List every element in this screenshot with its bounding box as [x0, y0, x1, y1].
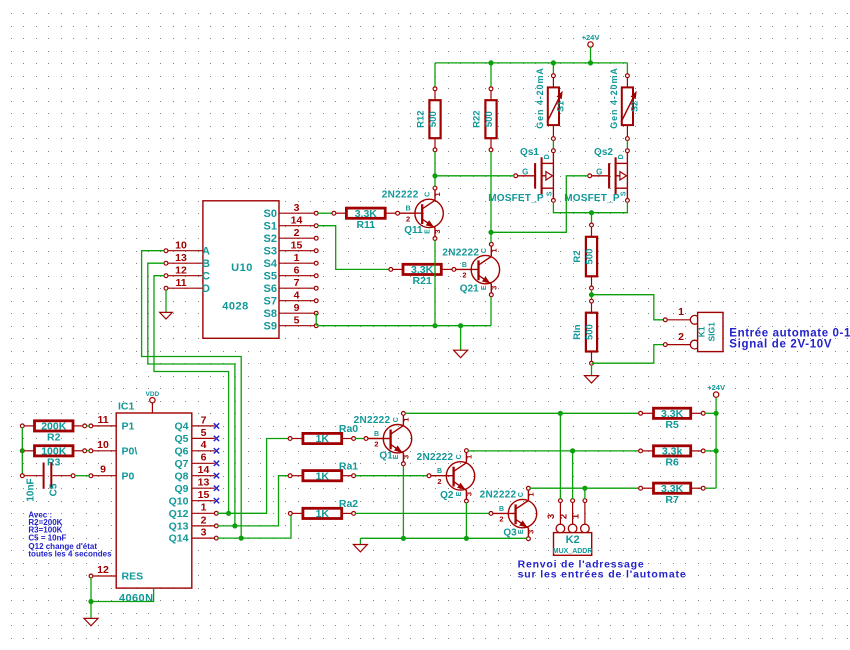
U10 pin A (pin 10)	[164, 240, 210, 258]
IC1 pin RES (pin 12)	[89, 564, 143, 583]
svg-text:Gen 4-20mA: Gen 4-20mA	[535, 67, 545, 129]
svg-text:2: 2	[374, 440, 378, 449]
junction source bus / R2	[589, 210, 594, 215]
wire bus to ground	[460, 326, 462, 351]
U10 pin S4 (pin 1)	[264, 252, 319, 270]
svg-text:P0\: P0\	[122, 445, 138, 457]
wire R7 right stub	[705, 487, 716, 489]
svg-text:4028: 4028	[222, 301, 248, 313]
wire R12 to Q11 collector	[434, 152, 436, 187]
power +24V (right)	[707, 383, 725, 397]
wire Q13 to Ra1	[218, 476, 288, 526]
IC IC1 4060N body	[116, 401, 192, 589]
svg-text:R2: R2	[572, 250, 583, 262]
svg-text:U10: U10	[231, 262, 253, 274]
wire bus to Q21 emitter	[490, 297, 492, 326]
current source S1 Gen 4-20mA	[535, 67, 566, 140]
capacitor C5 10nF	[20, 463, 75, 502]
transistor Q2	[417, 449, 475, 503]
svg-text:B: B	[499, 506, 504, 513]
wire Q11 emitter drop	[434, 241, 436, 326]
svg-text:10: 10	[175, 240, 187, 252]
svg-text:Ra1: Ra1	[339, 460, 358, 472]
resistor Ra0 1K	[288, 433, 355, 445]
wire to Qs2 gate	[491, 176, 588, 233]
svg-text:B: B	[462, 262, 467, 269]
svg-text:C: C	[425, 192, 432, 197]
wire K2 pin2 up	[572, 451, 574, 499]
resistor R11 3.3K	[332, 208, 396, 231]
svg-text:R22: R22	[472, 110, 483, 127]
svg-text:3: 3	[465, 492, 474, 496]
IC1 pin Q9 (pin 13)	[174, 477, 219, 495]
transistor Q11	[382, 186, 444, 240]
wire Q1 collector net	[405, 412, 639, 414]
resistor R6 3.3k	[639, 446, 705, 469]
transistor Q21	[442, 242, 499, 296]
svg-text:Q1: Q1	[379, 451, 393, 462]
junction left rail R3	[20, 449, 24, 453]
wire Q14 to Ra2	[218, 513, 291, 538]
svg-text:Q7: Q7	[174, 458, 188, 470]
transistor Q1	[354, 412, 412, 466]
junction bus/Q2	[464, 536, 469, 541]
svg-text:E: E	[481, 285, 488, 290]
U10 pin S8 (pin 9)	[264, 302, 319, 320]
svg-text:3: 3	[527, 530, 536, 534]
svg-text:R5: R5	[665, 419, 679, 431]
svg-text:S: S	[620, 191, 627, 196]
svg-text:10: 10	[97, 439, 109, 451]
svg-text:VDD: VDD	[146, 391, 160, 398]
svg-text:S7: S7	[264, 295, 277, 307]
wire Q3 collector net	[530, 487, 639, 489]
junction Q14/net A	[239, 536, 244, 541]
svg-text:15: 15	[291, 240, 303, 252]
wire R22 to Q21 collector	[490, 152, 492, 243]
IC1 pin P1 (pin 11)	[89, 414, 135, 433]
svg-text:Q10: Q10	[169, 495, 189, 507]
svg-text:RES: RES	[122, 571, 144, 583]
junction S9 bus / Q11 emitter	[432, 323, 437, 328]
resistor RIn 500	[572, 299, 597, 365]
label Ra2	[339, 498, 358, 510]
ground under RIn	[585, 376, 599, 383]
svg-text:1K: 1K	[316, 470, 330, 482]
wire RIn to K1 pin 2	[592, 345, 664, 364]
IC1 pin Q6 (pin 4)	[174, 439, 219, 457]
svg-text:4060N: 4060N	[119, 592, 153, 604]
wire Q2 collector net	[468, 450, 639, 452]
wire R2 to RIn	[591, 290, 593, 300]
U10 pin S2 (pin 2)	[264, 227, 319, 245]
svg-text:MOSFET_P: MOSFET_P	[564, 193, 620, 204]
svg-text:Gen 4-20mA: Gen 4-20mA	[609, 67, 619, 129]
svg-text:1: 1	[678, 306, 684, 318]
svg-text:2: 2	[678, 331, 684, 343]
svg-text:S: S	[546, 191, 553, 196]
svg-text:Q2: Q2	[440, 490, 454, 501]
resistor Ra1 1K	[288, 470, 355, 482]
wire S2 to Qs2 drain	[626, 140, 628, 149]
power flag VDD	[146, 391, 160, 413]
svg-text:S2: S2	[630, 101, 640, 112]
wire Ra1 to Q2	[355, 475, 427, 477]
svg-text:12: 12	[175, 265, 187, 277]
svg-text:Q13: Q13	[169, 521, 189, 533]
svg-text:B: B	[202, 258, 210, 270]
svg-text:R3: R3	[47, 456, 61, 468]
svg-text:3: 3	[402, 455, 411, 459]
U10 pin S5 (pin 6)	[264, 265, 319, 283]
svg-text:2: 2	[462, 271, 466, 280]
svg-text:3: 3	[546, 514, 557, 519]
svg-text:500: 500	[584, 249, 595, 265]
label Ra0	[339, 423, 358, 435]
svg-text:2: 2	[201, 514, 207, 526]
resistor R5 3.3K	[639, 408, 705, 431]
junction S9 bus / ground	[458, 323, 463, 328]
junction R12/Qs1 gate	[432, 173, 437, 178]
IC1 pin Q13 (pin 2)	[169, 514, 219, 532]
svg-text:S0: S0	[264, 208, 277, 220]
svg-text:3: 3	[433, 230, 442, 234]
svg-text:1: 1	[527, 493, 536, 497]
wire IC1 bottom to ground	[91, 588, 154, 601]
svg-text:4: 4	[201, 439, 207, 451]
svg-text:1: 1	[294, 252, 300, 264]
junction Q12/net B	[226, 511, 231, 516]
svg-text:1: 1	[433, 192, 442, 196]
svg-text:Q9: Q9	[174, 483, 188, 495]
svg-text:C: C	[202, 270, 210, 282]
svg-text:RIn: RIn	[572, 324, 583, 340]
IC1 pin Q14 (pin 3)	[169, 527, 219, 545]
IC1 pin Q5 (pin 5)	[174, 427, 219, 445]
ground under transistor bus	[353, 545, 367, 552]
svg-text:S2: S2	[264, 233, 277, 245]
wire emitter ground bus	[360, 537, 526, 539]
svg-text:S8: S8	[264, 308, 277, 320]
junction rail/R5	[714, 411, 719, 416]
svg-text:Q8: Q8	[174, 470, 188, 482]
wire RES down	[90, 578, 92, 602]
wire mosfet source bus	[553, 202, 627, 213]
svg-text:2N2222: 2N2222	[417, 452, 454, 463]
svg-text:B: B	[406, 206, 411, 213]
svg-text:14: 14	[291, 215, 303, 227]
svg-text:1K: 1K	[316, 508, 330, 520]
IC1 pin Q10 (pin 15)	[169, 489, 220, 507]
svg-text:MOSFET_P: MOSFET_P	[488, 193, 544, 204]
svg-text:G: G	[522, 168, 528, 177]
wire to Qs1 gate	[435, 175, 514, 177]
wire bus to R22	[490, 63, 492, 87]
svg-text:R21: R21	[413, 275, 432, 287]
junction Q2 net / K2 pin2	[570, 448, 575, 453]
wire Q2 emitter drop	[465, 503, 467, 539]
svg-text:15: 15	[198, 489, 210, 501]
wire Ra0 to Q1	[355, 438, 364, 440]
resistor R3 100K	[20, 445, 86, 468]
svg-text:3: 3	[490, 286, 499, 290]
wire net A (U10.A to IC1.Q14)	[142, 251, 242, 538]
wire C5 to P0	[75, 475, 89, 477]
resistor Ra2 1K	[288, 508, 355, 520]
wire bus to S2	[626, 63, 628, 74]
U10 pin S9 (pin 5)	[264, 315, 319, 333]
svg-text:2N2222: 2N2222	[480, 490, 517, 501]
svg-text:9: 9	[100, 464, 106, 476]
svg-text:Q5: Q5	[174, 433, 188, 445]
svg-text:Q21: Q21	[460, 284, 479, 295]
ground under U10.D	[160, 312, 173, 319]
svg-text:E: E	[518, 529, 525, 534]
svg-text:1: 1	[201, 502, 207, 514]
wire net C (U10.C to IC1.Q12)	[154, 276, 229, 514]
svg-text:A: A	[202, 245, 210, 257]
svg-text:toutes les 4 secondes: toutes les 4 secondes	[28, 549, 112, 558]
wire bus to S1	[552, 63, 554, 74]
svg-text:Q14: Q14	[169, 533, 189, 545]
svg-text:14: 14	[198, 464, 210, 476]
svg-text:1: 1	[571, 513, 582, 519]
IC1 pin Q12 (pin 1)	[169, 502, 219, 520]
svg-text:C5: C5	[49, 483, 60, 496]
svg-text:11: 11	[175, 277, 186, 289]
wire Q12 to Ra0	[218, 439, 288, 514]
svg-text:13: 13	[198, 477, 210, 489]
svg-text:S6: S6	[264, 283, 277, 295]
svg-text:7: 7	[201, 414, 207, 426]
junction Q1 net / K2 pin3	[558, 411, 563, 416]
svg-text:5: 5	[201, 427, 207, 439]
wire +24V top bus	[435, 62, 627, 64]
junction Q13/net C	[232, 523, 237, 528]
svg-text:R11: R11	[356, 219, 375, 231]
svg-text:E: E	[456, 491, 463, 496]
svg-text:S1: S1	[556, 101, 566, 112]
wire Q1 emitter drop	[402, 466, 404, 539]
svg-text:6: 6	[201, 452, 207, 464]
wire source bus to R2	[591, 213, 593, 224]
note renvoi adressage	[518, 558, 687, 580]
svg-text:1: 1	[465, 455, 474, 459]
U10 pin B (pin 13)	[164, 252, 210, 270]
junction bus/R22	[488, 60, 493, 65]
svg-text:E: E	[425, 229, 432, 234]
svg-text:R6: R6	[665, 457, 679, 469]
connector K2 MUX_ADDR	[546, 499, 592, 556]
U10 pin S3 (pin 15)	[264, 240, 319, 258]
svg-text:7: 7	[294, 277, 300, 289]
svg-text:2: 2	[558, 514, 569, 519]
label Ra1	[339, 460, 358, 472]
junction RES/ground	[88, 599, 93, 604]
wire S9 bus	[318, 325, 491, 327]
svg-text:Q12: Q12	[169, 508, 189, 520]
svg-text:Signal de 2V-10V: Signal de 2V-10V	[729, 338, 832, 350]
svg-text:2: 2	[294, 227, 300, 239]
ground under IC1	[84, 618, 98, 625]
svg-text:500: 500	[584, 324, 595, 340]
svg-text:1: 1	[490, 249, 499, 253]
IC1 pin Q8 (pin 14)	[174, 464, 219, 482]
svg-text:MUX_ADDR: MUX_ADDR	[553, 548, 593, 555]
svg-text:S5: S5	[264, 270, 277, 282]
svg-text:K1: K1	[697, 326, 707, 337]
resistor R12 500	[416, 87, 441, 152]
svg-text:B: B	[374, 431, 379, 438]
svg-text:B: B	[437, 468, 442, 475]
wire left rail R2-R3-C5	[21, 428, 23, 474]
wire R6 right stub	[705, 450, 716, 452]
junction bus/S1	[551, 60, 556, 65]
wire S1 to R21	[318, 226, 389, 270]
svg-text:S3: S3	[264, 245, 277, 257]
svg-text:+24V: +24V	[707, 383, 725, 392]
current source S2 Gen 4-20mA	[609, 67, 640, 140]
junction R2/RIn/K1	[589, 292, 594, 297]
transistor Q3	[480, 486, 537, 540]
svg-text:R12: R12	[416, 110, 427, 127]
IC1 pin Q7 (pin 6)	[174, 452, 219, 470]
wire 200K to P1	[86, 425, 89, 427]
svg-text:500: 500	[484, 111, 495, 127]
resistor R2 200K	[20, 421, 86, 444]
mosfet Qs2	[564, 147, 629, 204]
svg-text:1: 1	[402, 418, 411, 422]
svg-text:13: 13	[175, 252, 187, 264]
wire S1 to Qs1 drain	[552, 140, 554, 149]
wire K2 pin3 up	[559, 413, 561, 499]
svg-text:D: D	[544, 154, 551, 159]
svg-text:2N2222: 2N2222	[382, 190, 419, 201]
svg-text:2: 2	[406, 214, 410, 223]
wire S8-S9 link	[315, 313, 317, 326]
U10 pin S0 (pin 3)	[264, 202, 319, 220]
IC U10 4028 body	[203, 201, 279, 338]
wire net B (U10.B to IC1.Q13)	[148, 263, 235, 526]
svg-text:9: 9	[294, 302, 300, 314]
svg-text:IC1: IC1	[118, 401, 135, 413]
svg-text:D: D	[618, 154, 625, 159]
wire RIn to ground	[591, 365, 593, 376]
wire 100K to P0b	[86, 450, 89, 452]
junction Q3 net / K2 pin1	[582, 486, 587, 491]
svg-text:Ra2: Ra2	[339, 498, 358, 510]
junction bus/Q1	[401, 536, 406, 541]
resistor R7 3.3K	[639, 483, 705, 506]
wire U10.D to ground	[165, 290, 167, 313]
svg-text:3: 3	[201, 527, 207, 539]
svg-text:S4: S4	[264, 258, 278, 270]
ground under emitter bus	[454, 350, 468, 357]
wire +24V rail right	[715, 397, 717, 488]
svg-text:2: 2	[499, 515, 503, 524]
svg-text:2N2222: 2N2222	[442, 247, 479, 258]
svg-text:S9: S9	[264, 320, 277, 332]
resistor R22 500	[472, 87, 497, 152]
svg-text:C: C	[456, 454, 463, 459]
wire R5 right stub	[705, 412, 716, 414]
svg-text:2: 2	[437, 477, 441, 486]
svg-text:Q11: Q11	[404, 225, 423, 236]
svg-text:Q3: Q3	[503, 528, 517, 539]
svg-text:R2: R2	[47, 432, 61, 444]
IC1 pin Q4 (pin 7)	[174, 414, 219, 432]
U10 pin C (pin 12)	[164, 265, 210, 283]
svg-text:S1: S1	[264, 220, 277, 232]
U10 pin S6 (pin 7)	[264, 277, 319, 295]
svg-text:Qs1: Qs1	[520, 147, 539, 158]
svg-text:R7: R7	[665, 494, 679, 506]
svg-text:10nF: 10nF	[25, 478, 36, 501]
wire node to K1 pin 1	[592, 295, 664, 320]
svg-text:C: C	[393, 417, 400, 422]
note entree automate	[729, 328, 850, 351]
svg-text:C: C	[518, 492, 525, 497]
U10 pin S7 (pin 4)	[264, 290, 319, 308]
note avec R2 R3 C5	[28, 510, 112, 558]
svg-text:+24V: +24V	[582, 33, 600, 42]
svg-text:500: 500	[428, 111, 439, 127]
junction rail/R6	[714, 448, 719, 453]
junction R22/Qs2 gate branch	[488, 230, 493, 235]
svg-text:6: 6	[294, 265, 300, 277]
connector K1 SIG1	[663, 306, 723, 351]
svg-text:2N2222: 2N2222	[354, 415, 391, 426]
mosfet Qs1	[488, 147, 555, 204]
svg-text:Qs2: Qs2	[594, 147, 613, 158]
wire S0 to R11	[318, 212, 332, 214]
resistor R21 3.3K	[389, 264, 452, 287]
wire ground stub	[90, 602, 92, 619]
svg-text:Q4: Q4	[174, 421, 188, 433]
svg-text:SIG1: SIG1	[707, 322, 717, 342]
U10 pin S1 (pin 14)	[264, 215, 319, 233]
wire K2 pin1 up	[584, 488, 586, 499]
svg-text:12: 12	[97, 564, 109, 576]
U10 pin D (pin 11)	[164, 277, 210, 295]
svg-text:P1: P1	[122, 421, 135, 433]
resistor R2 500	[572, 223, 597, 290]
label 4060N	[119, 592, 153, 604]
svg-text:Q6: Q6	[174, 445, 188, 457]
wire bus ground stub	[359, 538, 361, 544]
svg-text:D: D	[202, 283, 210, 295]
IC1 pin P0\ (pin 10)	[89, 439, 137, 458]
wire Ra2 to Q3	[355, 512, 489, 514]
svg-text:sur les entrées de l'automate: sur les entrées de l'automate	[518, 569, 687, 581]
svg-text:E: E	[393, 454, 400, 459]
svg-text:3: 3	[294, 202, 300, 214]
svg-text:K2: K2	[566, 534, 580, 546]
power +24V (top)	[582, 33, 600, 63]
svg-text:C: C	[481, 248, 488, 253]
svg-text:11: 11	[97, 414, 108, 426]
junction bus/+24V	[588, 60, 593, 65]
svg-text:4: 4	[294, 290, 300, 302]
IC1 pin P0 (pin 9)	[89, 464, 135, 483]
svg-text:5: 5	[294, 315, 300, 327]
svg-text:1K: 1K	[316, 433, 330, 445]
wire bus to R12	[434, 63, 436, 87]
svg-text:P0: P0	[122, 470, 135, 482]
svg-text:G: G	[596, 168, 602, 177]
